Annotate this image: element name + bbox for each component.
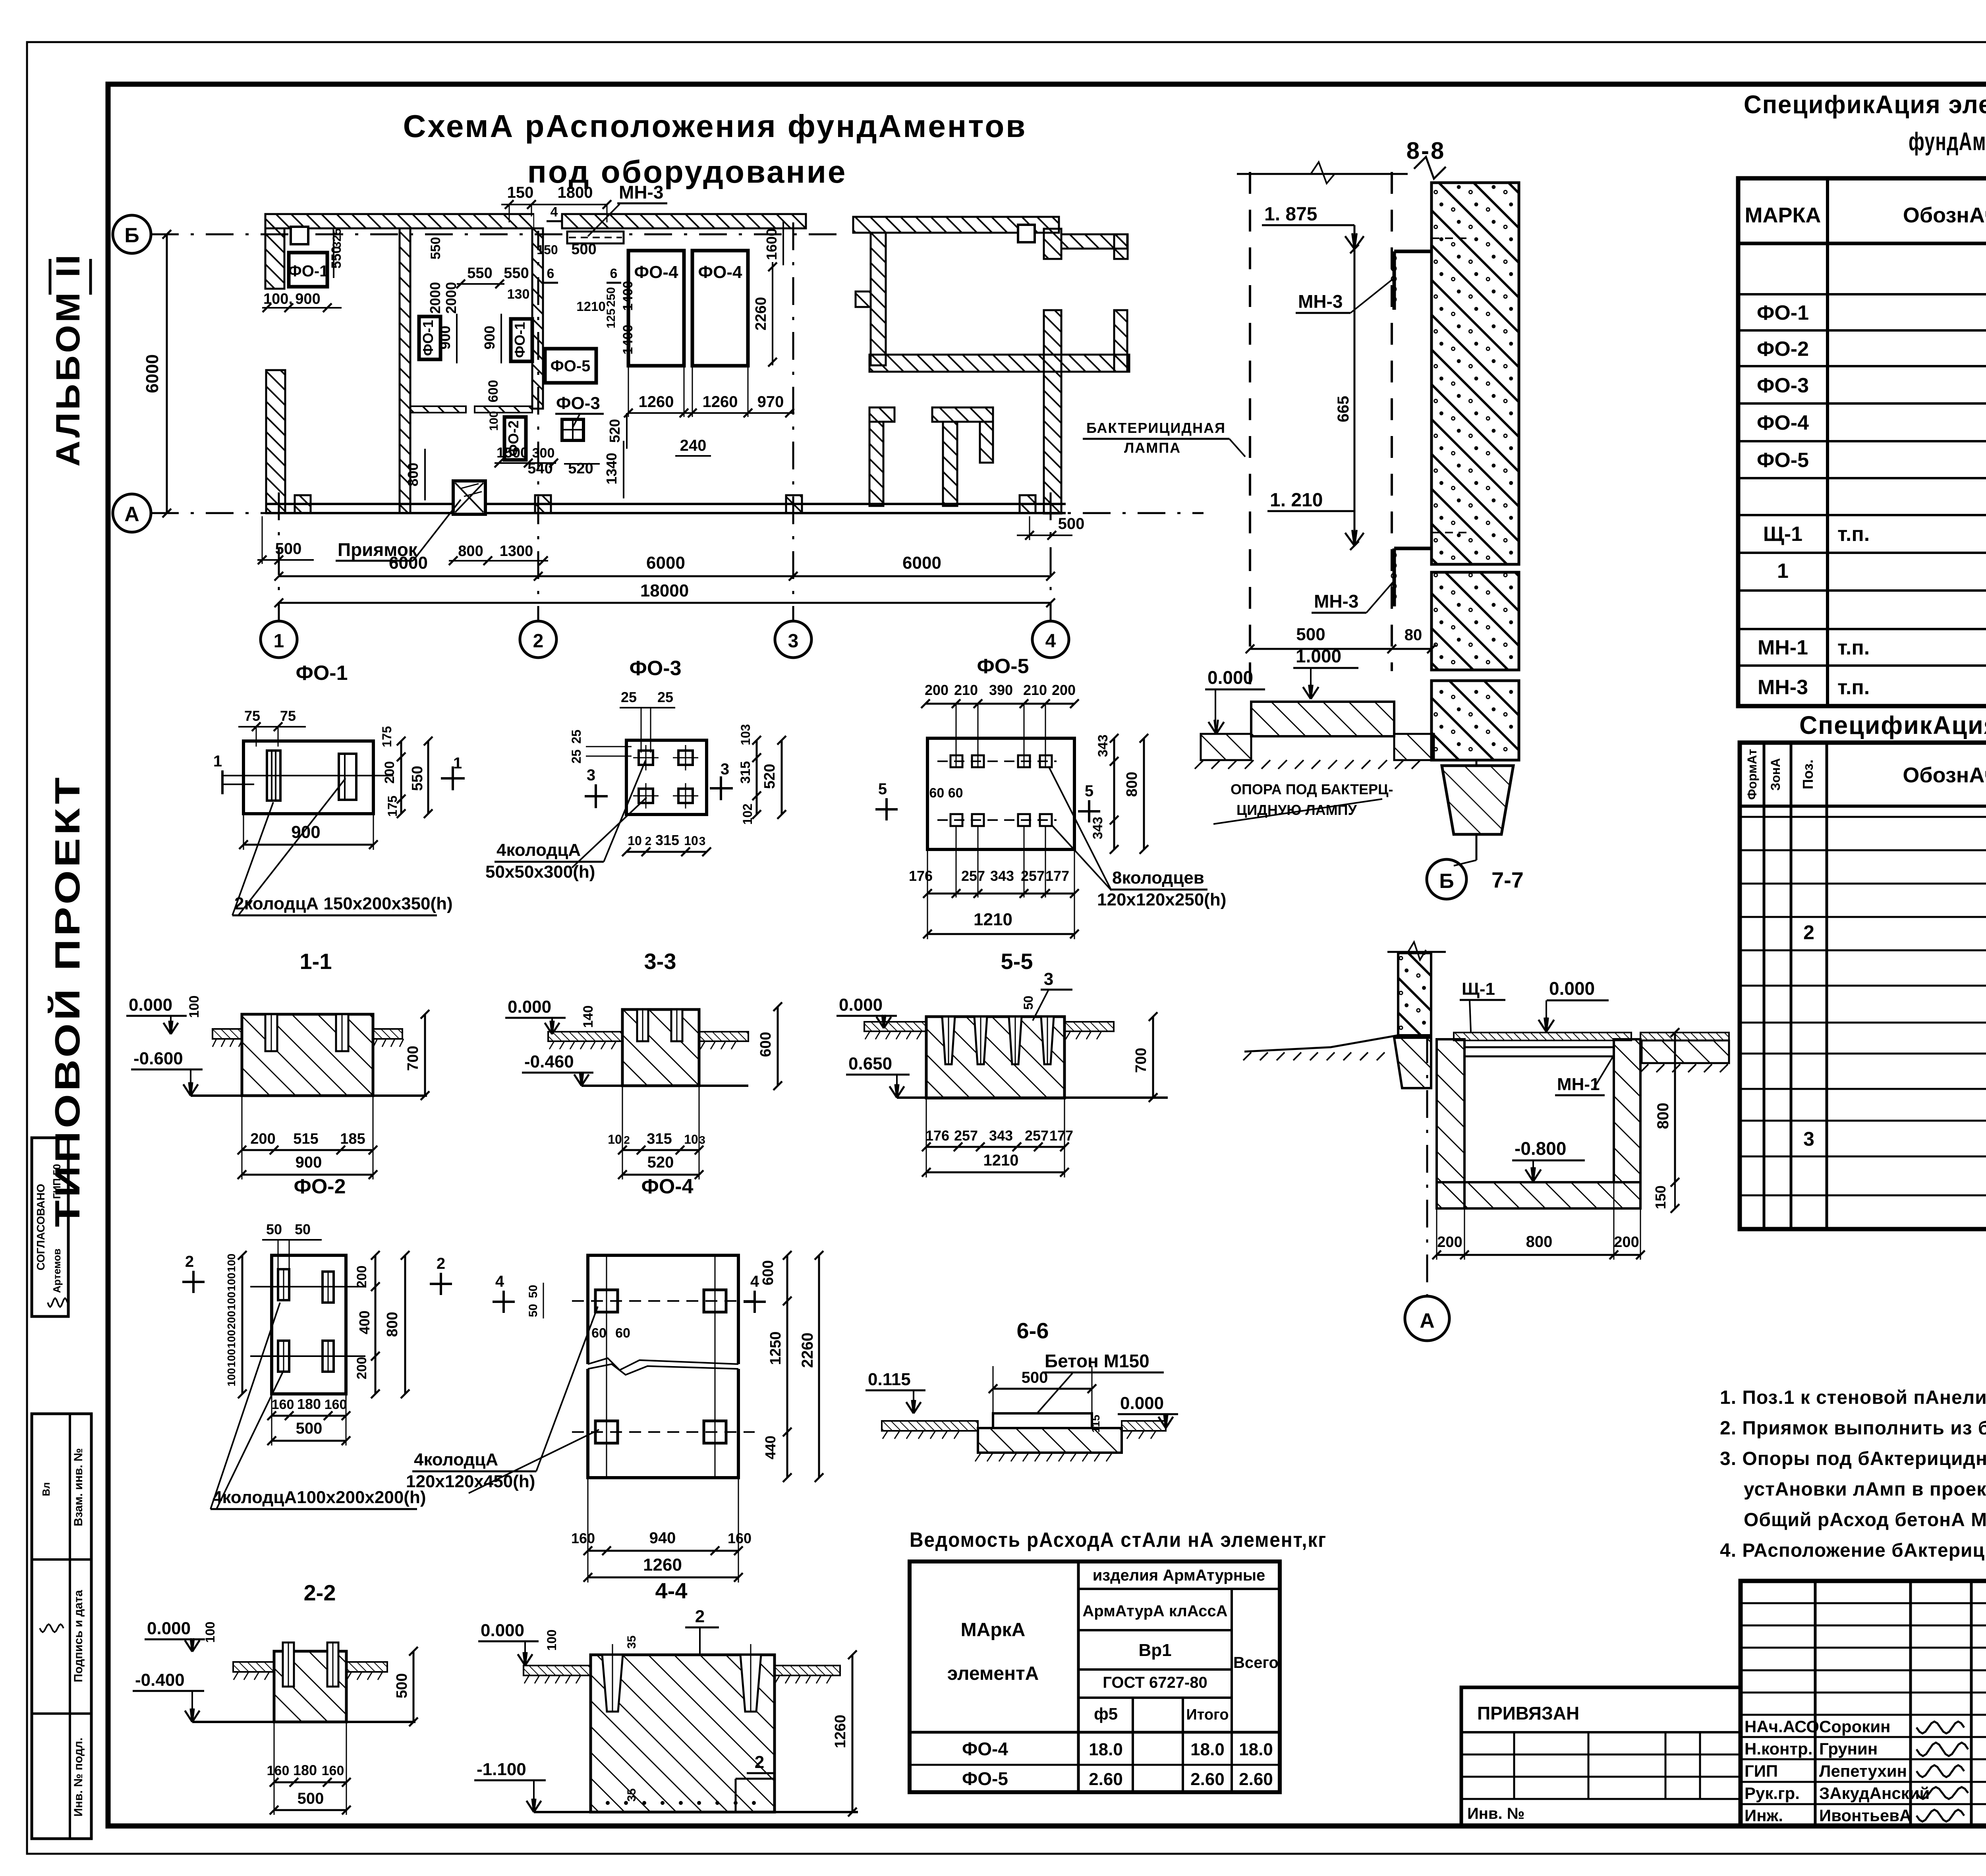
- svg-text:МН-3: МН-3: [1314, 591, 1358, 612]
- svg-text:ФО-5: ФО-5: [551, 357, 591, 375]
- column stub 1: [295, 495, 311, 513]
- 2-2 floor strips: [233, 1662, 274, 1672]
- svg-text:ФО-4: ФО-4: [1757, 411, 1809, 434]
- svg-text:900: 900: [295, 291, 320, 307]
- dims 1260 1260 970 under FO-4: [628, 412, 794, 414]
- 3-3 bottom line: [582, 1085, 748, 1087]
- FO-4 detail rect upper: [588, 1255, 738, 1364]
- svg-text:ФО-4: ФО-4: [962, 1739, 1008, 1759]
- svg-text:ОбознАчение: ОбознАчение: [1903, 763, 1986, 787]
- svg-text:ФО-1: ФО-1: [288, 262, 328, 280]
- svg-text:2260: 2260: [799, 1333, 816, 1368]
- svg-text:0.000: 0.000: [129, 995, 172, 1015]
- 6-6 base slab: [978, 1428, 1122, 1453]
- ground hash left: [1243, 1052, 1251, 1060]
- svg-text:1340: 1340: [603, 453, 620, 484]
- svg-text:50: 50: [295, 1221, 311, 1237]
- svg-text:5-5: 5-5: [1001, 949, 1033, 974]
- 2-2 ground hash: [234, 1672, 238, 1680]
- svg-text:2260: 2260: [753, 297, 769, 331]
- svg-text:2.60: 2.60: [1239, 1770, 1273, 1789]
- 3-3 floor right: [699, 1032, 748, 1041]
- FO-1 pocket 1: [267, 751, 280, 801]
- svg-text:1: 1: [1777, 560, 1789, 583]
- wall 8-8 break1: [1432, 564, 1519, 566]
- right building corner block: [1044, 229, 1061, 259]
- FO-3 detail rect: [626, 740, 707, 814]
- ground slope line: [1244, 1035, 1398, 1052]
- svg-text:ФО-1: ФО-1: [296, 662, 348, 685]
- ground hash right 7-7: [1640, 1064, 1648, 1072]
- svg-text:4колодцА: 4колодцА: [414, 1450, 498, 1469]
- 1-1 anchor slots: [265, 1014, 277, 1051]
- svg-text:Н.контр.: Н.контр.: [1745, 1739, 1812, 1758]
- floor slab 7-7 left of pit: [1454, 1033, 1631, 1040]
- svg-text:100: 100: [545, 1629, 559, 1650]
- svg-text:2: 2: [533, 631, 544, 652]
- opora base slab left: [1201, 734, 1251, 760]
- FO-5 pockets row2: [950, 814, 962, 826]
- svg-text:1. 875: 1. 875: [1264, 204, 1317, 225]
- 6-6 ground hash: [975, 1453, 981, 1461]
- axis line 4: [1050, 492, 1052, 620]
- FO-5 detail rect: [927, 738, 1074, 849]
- svg-text:3-3: 3-3: [644, 949, 676, 974]
- FO-4 center lines h: [572, 1300, 755, 1302]
- svg-text:0.000: 0.000: [1207, 667, 1253, 688]
- svg-text:МАРКА: МАРКА: [1745, 203, 1821, 227]
- svg-text:4-4: 4-4: [655, 1578, 688, 1603]
- pit cover plate lines: [1464, 1046, 1614, 1048]
- svg-text:550: 550: [504, 265, 529, 282]
- svg-text:1250: 1250: [767, 1332, 784, 1365]
- lower stub L1 vertical: [869, 422, 883, 506]
- svg-text:18.0: 18.0: [1190, 1740, 1225, 1759]
- svg-text:200: 200: [1052, 682, 1076, 698]
- svg-text:1-1: 1-1: [300, 949, 332, 974]
- svg-text:т.п.: т.п.: [1837, 523, 1870, 546]
- FO-3 pockets: [639, 751, 653, 765]
- axis line A: [151, 512, 1204, 514]
- svg-text:300: 300: [532, 446, 555, 461]
- 5-5 anchor slots tapered: [942, 1017, 955, 1064]
- svg-text:130: 130: [507, 287, 530, 302]
- FO-2 center lines: [250, 1286, 365, 1287]
- svg-text:4: 4: [495, 1273, 504, 1290]
- axis drop line 7-7: [1476, 834, 1478, 860]
- 1-1 block: [242, 1014, 373, 1096]
- svg-text:200: 200: [925, 682, 949, 698]
- pit right wall: [1614, 1039, 1640, 1182]
- svg-text:500: 500: [394, 1673, 410, 1698]
- svg-text:160: 160: [267, 1763, 290, 1778]
- FO-4 section mark 4 right: [753, 1291, 756, 1313]
- svg-text:180: 180: [293, 1762, 317, 1778]
- svg-text:900: 900: [481, 326, 498, 349]
- svg-text:160: 160: [728, 1530, 752, 1546]
- svg-text:100: 100: [225, 1330, 238, 1349]
- svg-text:25: 25: [621, 689, 637, 705]
- svg-text:315: 315: [738, 761, 753, 784]
- svg-text:35: 35: [625, 1635, 638, 1648]
- 1-1 floor right: [373, 1029, 402, 1039]
- axis circle A section: [1405, 1296, 1449, 1341]
- svg-text:Грунин: Грунин: [1819, 1739, 1878, 1758]
- svg-text:ФО-3: ФО-3: [629, 657, 681, 680]
- svg-text:10: 10: [684, 1132, 698, 1146]
- svg-text:1. 210: 1. 210: [1270, 490, 1323, 511]
- svg-text:Итого: Итого: [1186, 1706, 1229, 1723]
- FO-3 section mark 3 left: [595, 784, 597, 808]
- svg-text:100: 100: [225, 1349, 238, 1368]
- FO-4 section mark 4 left: [502, 1291, 505, 1313]
- svg-text:2: 2: [645, 835, 652, 848]
- wall top break: [1414, 157, 1446, 179]
- svg-text:МН-3: МН-3: [619, 182, 663, 203]
- 4-4 bottom line: [534, 1811, 858, 1813]
- svg-text:125: 125: [605, 309, 618, 328]
- svg-text:1: 1: [274, 631, 284, 652]
- svg-text:1: 1: [213, 753, 222, 770]
- foundation FO-2 plan: [504, 417, 526, 460]
- svg-text:240: 240: [680, 437, 707, 454]
- FO-1 section mark 1 right: [452, 766, 454, 790]
- svg-text:440: 440: [762, 1436, 779, 1459]
- FO-5 section mark 5 right: [1088, 800, 1090, 822]
- svg-text:МН-3: МН-3: [1298, 291, 1343, 312]
- 1-1 bottom line: [191, 1094, 427, 1097]
- wall 8-8 lower: [1432, 681, 1519, 760]
- svg-text:Бетон М150: Бетон М150: [1045, 1351, 1149, 1371]
- svg-text:150: 150: [507, 184, 534, 201]
- svg-text:4: 4: [750, 1273, 759, 1290]
- svg-text:2-2: 2-2: [304, 1580, 336, 1605]
- svg-text:60 60: 60 60: [929, 786, 963, 801]
- svg-text:4: 4: [1045, 631, 1056, 652]
- svg-text:160: 160: [322, 1763, 344, 1778]
- FO-1 detail rect: [243, 741, 373, 814]
- 5-5 block: [926, 1017, 1064, 1098]
- svg-text:1.000: 1.000: [1296, 646, 1341, 666]
- floor slab right of pit: [1640, 1033, 1729, 1040]
- svg-text:1. Поз.1 к стеновой пАнели: 1. Поз.1 к стеновой пАнели пристрелить д…: [1720, 1387, 1986, 1408]
- svg-text:МН-1: МН-1: [1557, 1075, 1600, 1094]
- svg-text:Рук.гр.: Рук.гр.: [1745, 1784, 1800, 1803]
- left wall lower segment: [266, 370, 285, 513]
- svg-text:2000: 2000: [427, 282, 443, 314]
- svg-text:ФО-5: ФО-5: [977, 655, 1029, 678]
- title block main frame: [1741, 1581, 1986, 1826]
- FO-5 pockets row1: [950, 755, 962, 767]
- signature grid: [1814, 1581, 1817, 1826]
- stamp boxes lower: [32, 1414, 91, 1839]
- svg-text:10: 10: [628, 834, 642, 848]
- svg-text:3: 3: [788, 631, 799, 652]
- wall 8-8 upper: [1432, 183, 1519, 564]
- svg-text:5: 5: [1085, 782, 1093, 800]
- svg-text:т.п.: т.п.: [1837, 636, 1870, 659]
- svg-text:8колодцев: 8колодцев: [1112, 868, 1204, 888]
- svg-text:8-8: 8-8: [1406, 137, 1446, 164]
- svg-text:3: 3: [1803, 1128, 1814, 1150]
- trapezoid footing: [1442, 766, 1513, 834]
- svg-text:50: 50: [527, 1304, 540, 1317]
- svg-text:0.000: 0.000: [508, 997, 551, 1017]
- left wall stub: [856, 291, 871, 307]
- svg-text:ОПОРА ПОД БАКТЕРЦ-: ОПОРА ПОД БАКТЕРЦ-: [1231, 781, 1393, 797]
- axis circle B: [113, 215, 151, 253]
- 4-4 ground hash: [524, 1675, 529, 1683]
- svg-text:0.115: 0.115: [868, 1370, 911, 1389]
- svg-text:550: 550: [467, 265, 492, 282]
- partition wall 2: [532, 228, 543, 409]
- FO-1 center lines: [222, 775, 393, 776]
- cut line dashed left: [1249, 172, 1251, 697]
- svg-text:18.0: 18.0: [1089, 1740, 1123, 1759]
- svg-text:100: 100: [225, 1368, 238, 1387]
- svg-text:25: 25: [569, 730, 583, 744]
- 5-5 floor left: [864, 1022, 926, 1031]
- spec table 1 frame: [1738, 178, 1986, 706]
- svg-text:А: А: [124, 503, 139, 526]
- FO-4 center lines v: [606, 1255, 607, 1478]
- svg-text:2: 2: [1803, 921, 1814, 944]
- svg-text:ЦИДНУЮ ЛАМПУ: ЦИДНУЮ ЛАМПУ: [1236, 802, 1357, 818]
- svg-text:1210: 1210: [983, 1152, 1019, 1169]
- svg-text:175: 175: [380, 726, 394, 747]
- svg-text:ФО-3: ФО-3: [1757, 374, 1809, 397]
- foundation FO-4 plan right: [692, 251, 748, 366]
- svg-text:176: 176: [925, 1127, 949, 1144]
- low wall segment 2: [475, 406, 532, 413]
- svg-text:-0.400: -0.400: [135, 1670, 185, 1690]
- svg-text:СпецификАция элементов к схем: СпецификАция элементов к схеме рАсположе…: [1744, 90, 1986, 119]
- svg-text:800: 800: [458, 543, 483, 560]
- foundation FO-1 second: [419, 317, 440, 359]
- svg-text:257: 257: [961, 868, 985, 884]
- svg-text:ФО-5: ФО-5: [962, 1768, 1008, 1789]
- 4-4 rebar dots: [606, 1801, 610, 1805]
- svg-text:3: 3: [587, 766, 595, 784]
- svg-text:700: 700: [1133, 1048, 1149, 1073]
- svg-text:35: 35: [625, 1788, 638, 1801]
- pit left wall: [1437, 1039, 1464, 1208]
- svg-text:500: 500: [1296, 625, 1325, 644]
- svg-text:115: 115: [1090, 1415, 1102, 1432]
- dims 200 800 200 pit: [1437, 1254, 1640, 1256]
- svg-text:343: 343: [989, 1127, 1013, 1144]
- 6-6 floor strips: [882, 1421, 978, 1431]
- svg-text:177: 177: [1045, 868, 1069, 884]
- svg-text:Общий рАсход бетонА М150 (В: Общий рАсход бетонА М150 (В12.5 ,W 6) — …: [1744, 1509, 1986, 1531]
- svg-text:50х50х300(h): 50х50х300(h): [485, 862, 595, 882]
- column stub 3: [786, 495, 802, 513]
- 2-2 block: [274, 1651, 346, 1722]
- svg-text:520: 520: [647, 1154, 674, 1171]
- svg-text:СОГЛАСОВАНО: СОГЛАСОВАНО: [35, 1184, 47, 1270]
- pit pryamok plan: [453, 481, 485, 514]
- svg-text:315: 315: [655, 832, 679, 848]
- svg-text:устАновки лАмп в проектное: устАновки лАмп в проектное положение.: [1744, 1479, 1986, 1500]
- low wall segment: [410, 406, 466, 413]
- svg-text:1260: 1260: [643, 1555, 682, 1575]
- FO-4 break line upper: [588, 1358, 738, 1370]
- FO-3 section mark 3 right: [720, 776, 722, 800]
- svg-text:0.000: 0.000: [481, 1621, 524, 1640]
- right building left wall: [871, 233, 886, 365]
- svg-text:Взам. инв. №: Взам. инв. №: [72, 1448, 85, 1527]
- FO-2 section mark 2 right: [440, 1273, 442, 1295]
- svg-text:2: 2: [185, 1253, 194, 1270]
- FO-2 pockets: [278, 1269, 289, 1300]
- lower stub L1 horizontal: [869, 407, 894, 422]
- svg-text:343: 343: [1095, 735, 1111, 757]
- axis line 1: [278, 492, 280, 620]
- svg-text:-1.100: -1.100: [477, 1760, 526, 1779]
- MN-3 angle top: [1393, 251, 1396, 310]
- spec table 2 frame: [1740, 743, 1986, 1229]
- signature scribbles: [1916, 1722, 1964, 1733]
- privyazan table: [1461, 1687, 1741, 1826]
- top wall left building: [265, 214, 534, 228]
- FO-1 section mark 1 left: [221, 770, 224, 794]
- svg-text:ФО-4: ФО-4: [634, 262, 678, 282]
- svg-text:Подпись и дата: Подпись и дата: [72, 1590, 85, 1682]
- svg-text:100: 100: [203, 1621, 217, 1642]
- svg-text:665: 665: [1335, 396, 1352, 423]
- svg-text:100: 100: [225, 1292, 238, 1310]
- svg-text:200: 200: [1437, 1234, 1462, 1251]
- svg-text:900: 900: [437, 326, 453, 349]
- svg-text:50: 50: [266, 1221, 282, 1237]
- svg-text:2: 2: [695, 1607, 705, 1626]
- svg-text:МН-1: МН-1: [1758, 636, 1808, 659]
- axis circle A: [113, 494, 151, 532]
- 5-5 floor right: [1064, 1022, 1114, 1031]
- svg-text:2: 2: [437, 1255, 445, 1272]
- svg-text:100,: 100,: [263, 291, 293, 307]
- svg-text:500: 500: [1058, 515, 1085, 533]
- column axis circle 3: [775, 621, 811, 658]
- svg-text:2. Приямок выполнить из бет: 2. Приямок выполнить из бетонА мАрки М15…: [1720, 1418, 1986, 1439]
- svg-text:ГОСТ 6727-80: ГОСТ 6727-80: [1103, 1674, 1207, 1691]
- embedded plate MN-3 plan: [567, 232, 624, 243]
- 1-1 floor left: [213, 1029, 242, 1039]
- svg-text:520: 520: [607, 419, 623, 443]
- svg-text:4колодцА: 4колодцА: [496, 840, 581, 860]
- svg-text:520: 520: [568, 460, 593, 477]
- svg-text:6000: 6000: [143, 354, 162, 393]
- 3-3 floor left: [548, 1032, 622, 1041]
- foundation FO-3 plan: [562, 419, 583, 440]
- svg-text:103: 103: [738, 724, 753, 745]
- lower stub T leg: [980, 422, 993, 463]
- 3-3 block: [622, 1009, 699, 1086]
- 6-6 slab raised: [993, 1413, 1092, 1428]
- svg-text:ФО-3: ФО-3: [556, 394, 600, 413]
- svg-text:1260: 1260: [703, 393, 738, 411]
- svg-text:Щ-1: Щ-1: [1763, 523, 1802, 546]
- svg-text:150: 150: [1652, 1185, 1669, 1209]
- svg-text:210: 210: [954, 682, 978, 698]
- column axis circle 1: [261, 621, 297, 658]
- ground block right: [1642, 1040, 1729, 1063]
- svg-text:АЛЬБОМ II: АЛЬБОМ II: [49, 252, 87, 467]
- axis line 2: [537, 222, 539, 620]
- wall column 7-7: [1398, 953, 1431, 1035]
- svg-text:200: 200: [1614, 1234, 1639, 1251]
- svg-text:343: 343: [1090, 817, 1105, 840]
- svg-text:160: 160: [325, 1397, 347, 1412]
- svg-text:Вл: Вл: [40, 1482, 52, 1496]
- svg-text:257: 257: [954, 1127, 978, 1144]
- svg-text:80: 80: [1404, 626, 1422, 644]
- svg-text:0.000: 0.000: [839, 995, 883, 1015]
- lower stub T horizontal: [932, 407, 993, 422]
- svg-text:ИвонтьевА: ИвонтьевА: [1819, 1806, 1911, 1825]
- svg-text:А: А: [1420, 1309, 1435, 1332]
- dimension line 6000x3: [279, 575, 1051, 577]
- top wall left building part2: [562, 214, 806, 228]
- svg-text:элементА: элементА: [947, 1663, 1039, 1684]
- svg-text:ФО-5: ФО-5: [1757, 449, 1809, 472]
- FO-4 pockets: [595, 1290, 618, 1312]
- svg-text:18.0: 18.0: [1239, 1740, 1273, 1759]
- svg-text:3: 3: [699, 1134, 705, 1146]
- svg-text:0.650: 0.650: [848, 1054, 892, 1073]
- svg-text:100: 100: [225, 1254, 238, 1272]
- svg-text:Инв. №: Инв. №: [1467, 1805, 1524, 1822]
- column axis circle 2: [520, 621, 556, 658]
- svg-text:ФО-1: ФО-1: [420, 320, 436, 356]
- axis circle B section: [1427, 859, 1466, 899]
- axis line 3: [792, 222, 794, 620]
- svg-text:75: 75: [280, 708, 296, 724]
- svg-text:-0.800: -0.800: [1515, 1138, 1566, 1159]
- right building center wall: [1044, 310, 1061, 513]
- svg-text:75: 75: [244, 708, 260, 724]
- svg-text:175: 175: [385, 795, 400, 816]
- 4-4 step detail right: [736, 1778, 775, 1780]
- svg-text:160: 160: [571, 1530, 595, 1546]
- svg-text:1600: 1600: [763, 228, 780, 260]
- svg-text:520: 520: [761, 764, 778, 789]
- svg-text:Вр1: Вр1: [1138, 1641, 1171, 1660]
- pit bottom slab: [1437, 1182, 1640, 1208]
- svg-text:400: 400: [356, 1310, 373, 1334]
- column stub 4: [1020, 495, 1036, 513]
- svg-text:1210: 1210: [974, 910, 1012, 929]
- svg-text:500: 500: [296, 1420, 323, 1437]
- opora base slab right: [1394, 734, 1434, 760]
- svg-text:Инв. № подл.: Инв. № подл.: [72, 1737, 85, 1816]
- svg-text:3: 3: [699, 835, 706, 848]
- svg-text:1400: 1400: [620, 324, 636, 355]
- 5-5 ground hash: [865, 1031, 870, 1039]
- svg-text:200: 200: [225, 1311, 238, 1330]
- svg-text:540: 540: [527, 460, 553, 477]
- svg-text:СхемА рАсположения фундА: СхемА рАсположения фундАментов: [403, 108, 1027, 144]
- foundation FO-4 plan left: [628, 251, 684, 366]
- right building right wall segment: [1114, 310, 1127, 372]
- svg-text:Б: Б: [1439, 870, 1454, 893]
- svg-text:550: 550: [409, 766, 426, 791]
- svg-text:1260: 1260: [832, 1715, 849, 1749]
- svg-text:100: 100: [187, 996, 202, 1018]
- door gap top wall: [534, 212, 562, 231]
- svg-text:800: 800: [1654, 1103, 1672, 1129]
- svg-text:315: 315: [647, 1131, 672, 1147]
